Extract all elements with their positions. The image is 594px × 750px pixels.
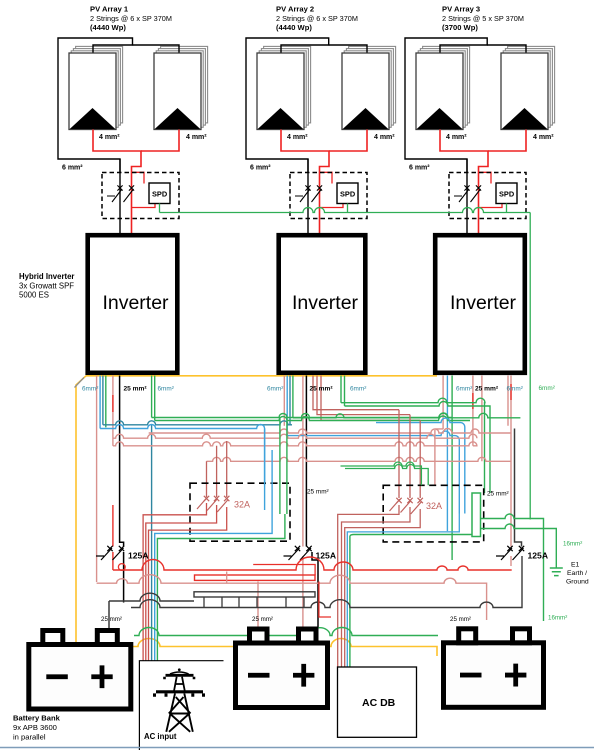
battery 2 terminal 2	[299, 629, 317, 643]
inv3 pink drop left	[442, 376, 444, 430]
inv3 pink drop to breaker 3	[508, 376, 511, 567]
dark bus rect	[194, 592, 315, 597]
svg-text:(3700 Wp): (3700 Wp)	[442, 23, 478, 32]
inv2 pink drop b to breaker2	[302, 376, 304, 628]
SPD earth drop group 2	[347, 204, 349, 213]
inv3 green drop	[451, 376, 453, 561]
inv2 green pair right	[341, 376, 345, 407]
svg-text:25 mm²: 25 mm²	[307, 489, 329, 496]
string wiring (black negative loop) group 3	[405, 38, 487, 172]
125A breaker 3	[496, 548, 524, 560]
inv1 pink drop b	[112, 376, 114, 446]
green earth right-side drop	[529, 213, 531, 520]
inv1 green pair right	[152, 376, 155, 421]
125A breaker 2	[284, 548, 312, 560]
svg-text:9x APB 3600: 9x APB 3600	[13, 723, 57, 732]
svg-text:2 Strings @ 6 x SP 370M: 2 Strings @ 6 x SP 370M	[90, 14, 172, 23]
string wiring (red positive) group 3	[440, 130, 488, 234]
svg-text:SPD: SPD	[152, 190, 168, 199]
inv1 pink drop a	[96, 376, 98, 583]
brown pole feed verticals 32A box2	[399, 410, 420, 498]
AC input enclosure lines	[139, 661, 223, 750]
inv3 blue drop	[446, 376, 448, 532]
battery 1 minus symbol	[46, 674, 68, 679]
inv2 green drop	[292, 376, 294, 418]
yellow AC wire: inverter bottom bus	[86, 375, 437, 377]
string wiring (black negative loop) group 1	[58, 38, 133, 172]
inv1 green drop	[105, 376, 107, 428]
32A breaker poles box2	[390, 499, 401, 511]
green bus y634	[134, 628, 438, 636]
blue riser into box1	[155, 429, 272, 661]
svg-text:25 mm²: 25 mm²	[450, 616, 471, 623]
green bus y406	[345, 402, 491, 494]
DC breaker poles group 3	[466, 159, 468, 233]
battery 3 minus symbol	[460, 673, 482, 678]
svg-text:6 mm²: 6 mm²	[409, 165, 430, 172]
SPD box group 3	[496, 183, 517, 204]
green pair into box2 top	[341, 462, 429, 485]
pink bus y446	[113, 442, 477, 446]
earth ground symbol E1	[550, 568, 563, 576]
inv3 red segment right	[510, 384, 512, 400]
svg-text:16mm²: 16mm²	[548, 615, 567, 622]
red bus y616	[253, 565, 315, 576]
svg-text:25 mm²: 25 mm²	[124, 386, 148, 393]
svg-text:2 Strings @ 5 x SP 370M: 2 Strings @ 5 x SP 370M	[442, 14, 524, 23]
string wiring (red positive) group 1	[93, 130, 141, 234]
dark bus y608	[131, 556, 522, 608]
svg-text:5000 ES: 5000 ES	[19, 291, 49, 300]
svg-text:4 mm²: 4 mm²	[374, 134, 395, 141]
red feed to 125A breaker1	[112, 505, 114, 570]
inv1 red segment on pink	[112, 395, 114, 412]
svg-text:25 mm²: 25 mm²	[252, 616, 273, 623]
32A box1 outputs to AC input bundle	[143, 503, 206, 661]
PV panel 3A	[423, 46, 470, 123]
inv2 brown phase outs	[313, 376, 420, 421]
inverter U1	[88, 235, 178, 373]
svg-text:6mm²: 6mm²	[507, 386, 523, 393]
teal bus y430	[103, 421, 292, 425]
green earth bus from SPDs	[160, 208, 531, 213]
svg-text:25 mm²: 25 mm²	[475, 386, 499, 393]
inverter U2	[279, 235, 366, 373]
svg-text:SPD: SPD	[499, 190, 515, 199]
PV panel 3B	[508, 46, 555, 123]
blue bus y435	[287, 431, 459, 513]
pink drop from y461 into 32A box1 pole1	[207, 441, 227, 497]
battery 3 terminal 2	[513, 629, 530, 643]
svg-text:(4440 Wp): (4440 Wp)	[276, 23, 312, 32]
dark bus upper segment	[109, 593, 194, 601]
pink battery2 minus stub	[257, 582, 259, 628]
svg-text:E1: E1	[571, 562, 580, 569]
green bus y424	[155, 416, 470, 421]
32A AC breaker dashed box 1	[190, 483, 290, 541]
AC DB box	[338, 667, 417, 737]
pink bus y425	[149, 429, 511, 486]
inv1 black drop to 125A breaker 1	[120, 376, 124, 603]
SPD earth drop group 1	[159, 204, 161, 213]
svg-text:125A: 125A	[528, 551, 549, 561]
svg-text:2 Strings @ 6 x SP 370M: 2 Strings @ 6 x SP 370M	[276, 14, 358, 23]
green bus y421	[152, 413, 453, 418]
red stub to y617	[319, 582, 331, 618]
blue bus y433	[100, 425, 265, 486]
green bus y413	[293, 413, 521, 418]
green stubs from busbar	[350, 514, 556, 667]
svg-text:4 mm²: 4 mm²	[533, 134, 554, 141]
svg-text:6mm²: 6mm²	[350, 386, 366, 393]
svg-text:6mm²: 6mm²	[539, 385, 555, 392]
battery bank 1	[29, 645, 131, 710]
red SPD tap group 1	[132, 172, 156, 207]
PV panel 1B	[161, 46, 208, 123]
svg-text:(4440 Wp): (4440 Wp)	[90, 23, 126, 32]
svg-text:4 mm²: 4 mm²	[446, 134, 467, 141]
inv2 black drop to 125A breaker 2 then battery2 +	[306, 376, 318, 628]
dark comb teeth	[204, 597, 304, 608]
svg-text:4 mm²: 4 mm²	[186, 134, 207, 141]
red main bus y570 with large loops	[113, 557, 512, 570]
svg-text:6mm²: 6mm²	[456, 386, 472, 393]
svg-text:AC input: AC input	[144, 732, 177, 741]
AC input transmission tower icon	[155, 668, 204, 731]
red SPD tap group 2	[320, 172, 344, 207]
svg-text:32A: 32A	[234, 500, 250, 510]
DC isolator dashed box group 2	[290, 173, 367, 219]
svg-text:Inverter: Inverter	[292, 292, 359, 314]
svg-text:AC DB: AC DB	[362, 697, 396, 709]
battery 2 minus symbol	[248, 673, 270, 678]
inv3 gray drop to breaker 3	[515, 429, 522, 547]
battery 1 terminal 2	[97, 631, 117, 645]
svg-text:4 mm²: 4 mm²	[287, 134, 308, 141]
SPD box group 1	[149, 183, 170, 204]
green risers into box1	[280, 418, 287, 515]
125A breaker 1	[96, 548, 124, 560]
inv2 teal drop	[289, 376, 291, 425]
inv2 blue drop	[286, 376, 288, 436]
teal drop to AC input bundle	[151, 425, 153, 661]
battery1 plus stub	[108, 601, 110, 628]
PV panel 2A	[264, 46, 311, 123]
svg-text:SPD: SPD	[340, 190, 356, 199]
svg-text:Hybrid Inverter: Hybrid Inverter	[19, 272, 74, 281]
inv1 teal drop	[102, 376, 104, 425]
svg-text:in parallel: in parallel	[13, 733, 46, 742]
svg-text:4 mm²: 4 mm²	[99, 134, 120, 141]
battery 3 plus symbol	[505, 664, 526, 687]
svg-text:125A: 125A	[128, 551, 149, 561]
battery bank 3	[444, 643, 544, 708]
svg-text:PV Array 2: PV Array 2	[276, 5, 314, 14]
DC breaker poles group 2	[307, 159, 309, 233]
battery 2 terminal 1	[250, 629, 268, 643]
string wiring (black negative loop) group 2	[246, 38, 329, 172]
DC isolator dashed box group 3	[449, 173, 526, 219]
green earth busbar right of box2	[472, 493, 481, 537]
svg-text:3x Growatt SPF: 3x Growatt SPF	[19, 281, 74, 290]
svg-text:Inverter: Inverter	[450, 292, 517, 314]
svg-text:6 mm²: 6 mm²	[62, 165, 83, 172]
svg-text:Ground: Ground	[566, 579, 589, 586]
svg-text:25 mm²: 25 mm²	[310, 386, 334, 393]
string wiring (red positive) group 2	[281, 130, 329, 234]
battery bank 2	[236, 643, 328, 708]
svg-text:PV Array 1: PV Array 1	[90, 5, 129, 14]
pink bus y461	[207, 457, 512, 461]
DC breaker poles group 1	[119, 159, 121, 233]
svg-text:Inverter: Inverter	[102, 292, 169, 314]
inverter U3	[435, 235, 525, 373]
page border line bottom	[0, 747, 594, 749]
PV panel 1A	[76, 46, 123, 123]
blue upper bus y422.6 to box2	[376, 418, 465, 513]
red SPD tap group 3	[479, 172, 503, 207]
red junction loop at breaker1 pole2	[118, 564, 125, 571]
DC isolator dashed box group 1	[102, 173, 179, 219]
32A box2 output jogs to AC DB bundle	[338, 505, 421, 667]
blue from box2 to AC DB bundle	[347, 514, 459, 668]
svg-text:32A: 32A	[426, 501, 442, 511]
svg-text:25 mm²: 25 mm²	[101, 616, 122, 623]
battery 3 terminal 1	[459, 629, 476, 643]
svg-text:16mm²: 16mm²	[563, 541, 582, 548]
inv3 red segment	[472, 393, 474, 409]
32A breaker poles box1	[197, 497, 208, 509]
pink bus y438	[113, 434, 477, 438]
battery 1 plus symbol	[91, 665, 112, 688]
svg-text:6mm²: 6mm²	[267, 386, 283, 393]
PV panel 2B	[349, 46, 396, 123]
SPD box group 2	[337, 183, 358, 204]
gray tick inv1 bottom-left	[75, 378, 85, 388]
red bus rect nest	[195, 575, 316, 580]
inv3 pink pair	[473, 376, 482, 462]
battery 1 terminal 1	[43, 631, 63, 645]
32A AC breaker dashed box 2	[383, 485, 484, 542]
svg-text:6 mm²: 6 mm²	[250, 165, 271, 172]
svg-text:Earth /: Earth /	[567, 570, 587, 577]
svg-text:6mm²: 6mm²	[158, 386, 174, 393]
green bus y403	[341, 398, 485, 493]
SPD earth drop group 3	[506, 204, 508, 213]
yellow AC wire: left drop and bottom run	[76, 376, 437, 656]
inv2 pink drop a	[283, 376, 285, 426]
battery 2 plus symbol	[293, 664, 314, 687]
pink feeder battery3 long	[97, 575, 487, 620]
svg-text:PV Array 3: PV Array 3	[442, 5, 480, 14]
pink stub at 226.7	[226, 572, 228, 584]
inv1 blue drop	[99, 376, 101, 429]
svg-text:Battery Bank: Battery Bank	[13, 714, 61, 723]
svg-text:25 mm²: 25 mm²	[487, 491, 509, 498]
svg-text:6mm²: 6mm²	[82, 386, 98, 393]
